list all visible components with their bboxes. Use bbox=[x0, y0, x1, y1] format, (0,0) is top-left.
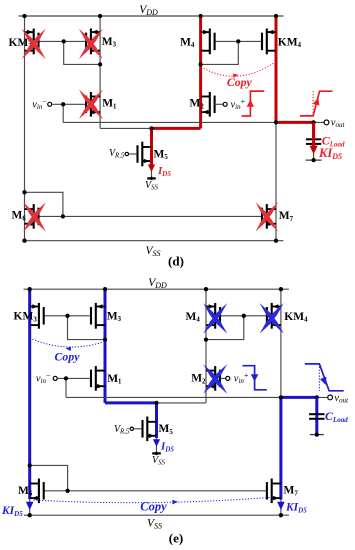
wire M4-M2 column red path (d) bbox=[199, 16, 202, 128]
capacitor CLoad (d) bbox=[306, 139, 321, 144]
label Copy (d) bbox=[227, 75, 253, 89]
wire tail line blue segment (e) bbox=[105, 401, 157, 404]
cross out M6 (d) bbox=[23, 202, 46, 231]
label Copy (e) bbox=[55, 350, 81, 364]
label KM3 (d) bbox=[9, 37, 33, 50]
node M6 drain junction (e) bbox=[28, 463, 32, 467]
wire M5 drain blue path (e) bbox=[155, 403, 158, 438]
transistor M7 (d) bbox=[262, 204, 276, 229]
wire output line blue overlay (e) bbox=[281, 396, 317, 399]
label Copy bottom (e) bbox=[140, 500, 167, 514]
transistor M4 (d) bbox=[201, 29, 215, 55]
node M3 gate junction (e) bbox=[65, 314, 69, 318]
svg-text:Copy: Copy bbox=[227, 75, 253, 89]
net VDD rail (d) bbox=[19, 4, 284, 17]
node CLoad junction (e) bbox=[315, 395, 319, 399]
wire M4 diode connection (d) bbox=[201, 41, 239, 64]
wire KM4 column red path (d) bbox=[275, 16, 278, 122]
node vin- feedback junction (e) bbox=[64, 376, 68, 380]
wire output column to M7 blue path (e) bbox=[279, 397, 282, 499]
node CLoad junction (d) bbox=[311, 120, 315, 124]
ground VSS symbol M5 (e) bbox=[152, 452, 166, 467]
transistor KM4 (d) bbox=[262, 29, 276, 55]
current arrow ID5 (d) bbox=[148, 156, 155, 172]
current arrow KID5 M6 (e) bbox=[26, 502, 34, 510]
label M2 (d) bbox=[190, 98, 205, 111]
svg-text:(d): (d) bbox=[168, 254, 184, 269]
wire left column bottom (e) bbox=[29, 499, 31, 515]
label M4 (d) bbox=[180, 36, 195, 49]
icon vin+ rising step (d) bbox=[242, 91, 265, 116]
terminal vin+ (e) bbox=[226, 376, 230, 380]
label M3 (d) bbox=[102, 36, 117, 49]
transistor M6 (d) bbox=[25, 204, 39, 229]
label vin- (d) bbox=[32, 97, 47, 111]
node VDD KM3 (d) bbox=[22, 14, 26, 18]
transistor KM3 (e) bbox=[30, 303, 44, 329]
wire feedback line vin- to vout (e) bbox=[66, 378, 328, 397]
wire CLoad bottom (d) bbox=[313, 145, 315, 160]
node M4 drain junction (d) bbox=[198, 62, 202, 66]
wire M4 diode connection (e) bbox=[206, 316, 244, 340]
ground VSS symbol M5 (d) bbox=[145, 177, 159, 192]
current arrow KID5 M7 (e) bbox=[277, 502, 285, 510]
node VDD M4 (d) bbox=[198, 14, 202, 18]
node M3 drain junction (e) bbox=[103, 337, 107, 341]
terminal vin- (e) bbox=[53, 376, 57, 380]
label vout (e) bbox=[334, 393, 349, 405]
label VR5 (e) bbox=[114, 424, 130, 436]
cross out KM3 (d) bbox=[22, 29, 46, 59]
wire tail line (d) bbox=[100, 127, 151, 129]
label KM4 (d) bbox=[278, 36, 302, 49]
node VSS M7 (e) bbox=[279, 513, 283, 517]
transistor M5 (e) bbox=[143, 417, 157, 442]
wire vin- to M1 gate (e) bbox=[58, 377, 91, 379]
wire M6 diode connection (e) bbox=[30, 465, 68, 490]
wire output column to M7 (d) bbox=[275, 122, 277, 240]
copy arrow M4 to KM4 (d) bbox=[201, 62, 276, 78]
wire M3 diode connection (e) bbox=[68, 316, 106, 340]
label KID5 (d) bbox=[318, 146, 342, 161]
wire VR5 to M5 gate (d) bbox=[129, 153, 137, 155]
wire M3-M1 column (d) bbox=[99, 16, 101, 128]
net VSS rail (d) bbox=[24, 241, 283, 258]
wire KM4 column (e) bbox=[280, 289, 282, 397]
transistor M3 (d) bbox=[86, 29, 100, 55]
net VSS rail (e) bbox=[24, 515, 289, 530]
label M6 (d) bbox=[12, 210, 27, 223]
node VDD M3 (e) bbox=[103, 287, 107, 291]
wire M5 source to VSS (e) bbox=[156, 436, 158, 453]
wire KM3-M3 gate line (d) bbox=[39, 40, 87, 42]
svg-text:Copy: Copy bbox=[140, 500, 167, 514]
cross out M7 (d) bbox=[256, 202, 279, 231]
wire M4-KM4 gate line (e) bbox=[220, 315, 267, 317]
wire M5 source to VSS (d) bbox=[151, 161, 153, 178]
transistor M2 (d) bbox=[201, 92, 215, 117]
wire M2 gate to vin+ (d) bbox=[215, 103, 223, 105]
cross out M1 (d) bbox=[79, 90, 103, 120]
node VDD KM4 (e) bbox=[279, 287, 283, 291]
transistor M6 (e) bbox=[30, 479, 44, 504]
label M3 (e) bbox=[107, 310, 122, 323]
label (e) bbox=[169, 531, 183, 546]
wire M5 drain red path (d) bbox=[150, 128, 153, 163]
label M4 (e) bbox=[186, 311, 201, 324]
node output junction (d) bbox=[274, 120, 278, 124]
wire CLoad top blue (e) bbox=[315, 397, 318, 434]
label vin+ (d) bbox=[231, 97, 246, 111]
capacitor CLoad (e) bbox=[309, 414, 324, 419]
node CLoad bottom terminal (e) bbox=[310, 432, 324, 436]
node VSS M7 (d) bbox=[274, 239, 278, 243]
node M3 drain junction (d) bbox=[98, 62, 102, 66]
wire output line red overlay (d) bbox=[276, 121, 314, 124]
cross out M4 (e) bbox=[203, 303, 227, 334]
node VSS left (e) bbox=[28, 513, 32, 517]
node VDD M3 (d) bbox=[98, 14, 102, 18]
terminal vout (d) bbox=[324, 120, 329, 125]
cross out M3 (d) bbox=[79, 29, 103, 59]
transistor M3 (e) bbox=[91, 303, 105, 329]
label KM4 (e) bbox=[284, 311, 308, 324]
copy arrow M6 to M7 (e) bbox=[34, 497, 273, 504]
current arrow ID5 (e) bbox=[153, 439, 160, 447]
terminal VR5 (e) bbox=[130, 427, 133, 430]
svg-text:(e): (e) bbox=[169, 531, 183, 546]
transistor M4 (e) bbox=[206, 303, 220, 329]
terminal vout (e) bbox=[328, 395, 333, 400]
wire feedback line vin- to vout (d) bbox=[63, 104, 324, 122]
icon vin+ falling step (e) bbox=[243, 366, 267, 390]
wire left column KM3-M6 (d) bbox=[24, 16, 26, 241]
node tail junction (e) bbox=[154, 401, 158, 405]
node M4 gate junction (d) bbox=[236, 39, 240, 43]
node M6 gate junction (e) bbox=[65, 489, 69, 493]
label ID5 (e) bbox=[160, 441, 174, 454]
wire left column blue path (e) bbox=[28, 289, 31, 499]
label M7 (d) bbox=[279, 210, 294, 223]
wire M7 source bottom (e) bbox=[280, 500, 282, 516]
label M5 (e) bbox=[159, 423, 174, 436]
terminal vin- (d) bbox=[48, 102, 52, 106]
transistor M1 (e) bbox=[91, 366, 105, 391]
label CLoad (d) bbox=[322, 134, 345, 149]
svg-text:Copy: Copy bbox=[55, 350, 81, 364]
copy arrow M3 to KM3 (e) bbox=[30, 338, 105, 351]
wire M4-M2 column (e) bbox=[205, 289, 207, 403]
label KID5 M6 (e) bbox=[1, 505, 23, 518]
wire vin- to M1 gate (d) bbox=[52, 103, 86, 105]
label M7 (e) bbox=[284, 485, 299, 498]
label M5 (d) bbox=[154, 148, 169, 161]
label vout (d) bbox=[331, 117, 346, 128]
net VDD rail (e) bbox=[24, 277, 289, 290]
node VSS left (d) bbox=[22, 239, 26, 243]
wire M3 diode connection (d) bbox=[64, 41, 100, 64]
node M6 drain junction (d) bbox=[22, 190, 26, 194]
wire M6 diode connection (d) bbox=[25, 192, 63, 216]
label M6 (e) bbox=[18, 485, 33, 498]
node VDD KM3 (e) bbox=[28, 287, 32, 291]
label M1 (d) bbox=[102, 98, 117, 111]
node M6 gate junction (d) bbox=[61, 214, 65, 218]
label vin- (e) bbox=[36, 371, 51, 385]
node VDD KM4 (d) bbox=[274, 14, 278, 18]
transistor M5 (d) bbox=[138, 142, 152, 167]
wire tail line red segment (d) bbox=[152, 127, 201, 130]
transistor KM4 (e) bbox=[267, 303, 281, 329]
transistor M1 (d) bbox=[86, 92, 100, 117]
wire CLoad top red (d) bbox=[312, 122, 315, 138]
wire tail line (e) bbox=[157, 402, 207, 404]
wire M4-KM4 gate line (d) bbox=[215, 40, 262, 42]
label VR5 (d) bbox=[109, 148, 125, 160]
node vin- feedback junction (d) bbox=[61, 102, 65, 106]
label KID5 M7 (e) bbox=[285, 502, 307, 515]
label (d) bbox=[168, 254, 184, 269]
wire M3-M1 column blue path (e) bbox=[104, 289, 107, 403]
wire M6-M7 gate line (d) bbox=[39, 215, 263, 217]
label ID5 (d) bbox=[157, 165, 171, 178]
wire VR5 to M5 gate (e) bbox=[134, 428, 142, 430]
label vin+ (e) bbox=[234, 371, 249, 385]
label CLoad (e) bbox=[325, 409, 348, 424]
label M2 (e) bbox=[191, 373, 206, 386]
cross out KM4 (e) bbox=[260, 303, 284, 334]
node output junction (e) bbox=[279, 395, 283, 399]
cross out M2 (e) bbox=[203, 364, 227, 394]
wire M6-M7 gate line (e) bbox=[44, 490, 267, 492]
node M3 gate junction (d) bbox=[62, 39, 66, 43]
icon vout falling slew (e) bbox=[305, 364, 344, 391]
terminal VR5 (d) bbox=[125, 152, 128, 155]
node M4 drain junction (e) bbox=[204, 337, 208, 341]
icon vout rising slew (d) bbox=[300, 91, 333, 116]
transistor M7 (e) bbox=[267, 479, 281, 504]
node M4 gate junction (e) bbox=[242, 314, 246, 318]
terminal vin+ (d) bbox=[223, 102, 227, 106]
node VDD M4 (e) bbox=[204, 287, 208, 291]
node tail junction (d) bbox=[149, 126, 153, 130]
label KM3 (e) bbox=[14, 311, 38, 324]
wire M2 gate to vin+ (e) bbox=[220, 377, 225, 379]
transistor M2 (e) bbox=[206, 366, 220, 391]
label M1 (e) bbox=[107, 373, 122, 386]
wire KM3-M3 gate line (e) bbox=[44, 315, 91, 317]
node CLoad bottom terminal (d) bbox=[306, 158, 322, 162]
current arrow KID5 (d) bbox=[310, 125, 318, 155]
transistor KM3 (d) bbox=[25, 29, 39, 55]
